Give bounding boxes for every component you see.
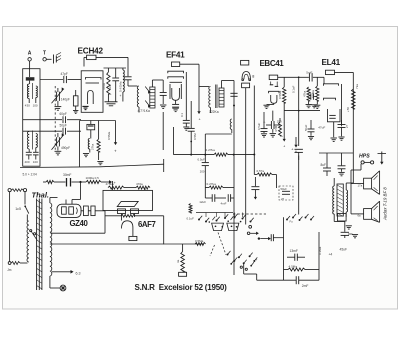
svg-text:8uF: 8uF [321,163,327,167]
svg-text:1000a 0.5: 1000a 0.5 [86,176,100,180]
svg-text:Jm: Jm [7,268,12,272]
svg-text:3a: 3a [176,259,180,263]
svg-text:EBC41: EBC41 [260,59,285,68]
svg-text:470a: 470a [136,182,143,186]
svg-text:A: A [28,51,32,57]
svg-text:100: 100 [33,104,38,108]
svg-text:+: + [120,94,122,98]
svg-text:Audax T-19 BF 8: Audax T-19 BF 8 [383,187,388,221]
svg-text:2mF: 2mF [302,284,309,288]
svg-text:2?: 2? [345,124,349,128]
svg-text:0.5M: 0.5M [193,133,197,140]
svg-text:4mF: 4mF [221,202,227,206]
svg-text:+: + [198,118,200,122]
svg-text:2?: 2? [281,197,285,201]
svg-text:8: 8 [252,75,254,79]
svg-text:6AF7: 6AF7 [138,220,156,229]
svg-text:5.0 + 2.04: 5.0 + 2.04 [23,173,37,177]
svg-text:27ka: 27ka [91,143,95,150]
svg-text:6.3: 6.3 [76,271,81,275]
svg-text:430: 430 [25,104,30,108]
svg-text:0.5uF: 0.5uF [198,157,206,161]
svg-text:140pF: 140pF [61,98,70,102]
svg-text:0.5?a: 0.5?a [257,169,265,173]
svg-text:S.N.R Excelsior 52 (1950): S.N.R Excelsior 52 (1950) [135,283,228,292]
svg-text:47uF: 47uF [318,126,325,130]
svg-text:0.27ka: 0.27ka [207,182,217,186]
svg-text:4.5M: 4.5M [274,125,278,132]
svg-text:50uF: 50uF [281,187,288,191]
svg-text:+: + [255,258,257,262]
svg-text:0.5Ma: 0.5Ma [311,90,315,98]
svg-text:45uF: 45uF [340,248,348,252]
svg-text:100: 100 [33,160,38,164]
svg-text:50uF: 50uF [304,124,308,131]
svg-text:T: T [43,51,46,57]
svg-text:400: 400 [25,160,30,164]
svg-text:+: + [283,145,285,149]
svg-text:50pF: 50pF [60,124,67,128]
svg-text:47pF: 47pF [61,72,68,76]
svg-text:0.5uF: 0.5uF [257,123,261,130]
svg-text:EF41: EF41 [166,51,185,60]
svg-text:1c5: 1c5 [15,207,21,211]
svg-text:5mF: 5mF [306,71,312,75]
svg-text:EL41: EL41 [322,58,341,67]
svg-text:0.3Ma: 0.3Ma [318,246,322,255]
svg-text:ECH42: ECH42 [78,47,104,56]
svg-text:13mF: 13mF [290,249,298,253]
svg-text:200: 200 [200,170,205,174]
svg-text:+4: +4 [329,253,333,257]
svg-text:GZ40: GZ40 [70,219,89,228]
svg-text:12uF: 12uF [199,200,206,204]
svg-text:7ka: 7ka [355,84,359,89]
svg-text:30mF: 30mF [63,173,71,177]
svg-text:Fo: Fo [290,220,294,224]
svg-text:0.1: 0.1 [180,113,184,117]
svg-text:Thal.: Thal. [32,191,50,200]
svg-text:0.1uF: 0.1uF [292,85,296,93]
svg-text:6a: 6a [358,214,362,218]
svg-text:60pF: 60pF [60,112,67,116]
svg-text:0.1uF: 0.1uF [187,217,195,221]
svg-text:HPS: HPS [359,154,370,160]
svg-text:17a: 17a [358,184,363,188]
svg-text:47ka: 47ka [302,90,306,97]
svg-text:47ka: 47ka [102,83,106,90]
svg-text:0.4/1Ma: 0.4/1Ma [118,81,122,92]
svg-text:4.5Ma: 4.5Ma [289,265,298,269]
svg-text:0.5Ma: 0.5Ma [278,90,282,99]
svg-text:490pF: 490pF [61,146,70,150]
svg-text:2.2?ka: 2.2?ka [206,148,216,152]
svg-text:0.5Ma: 0.5Ma [107,131,111,140]
svg-text:+50: +50 [346,107,350,112]
svg-text:6m2: 6m2 [108,84,112,90]
